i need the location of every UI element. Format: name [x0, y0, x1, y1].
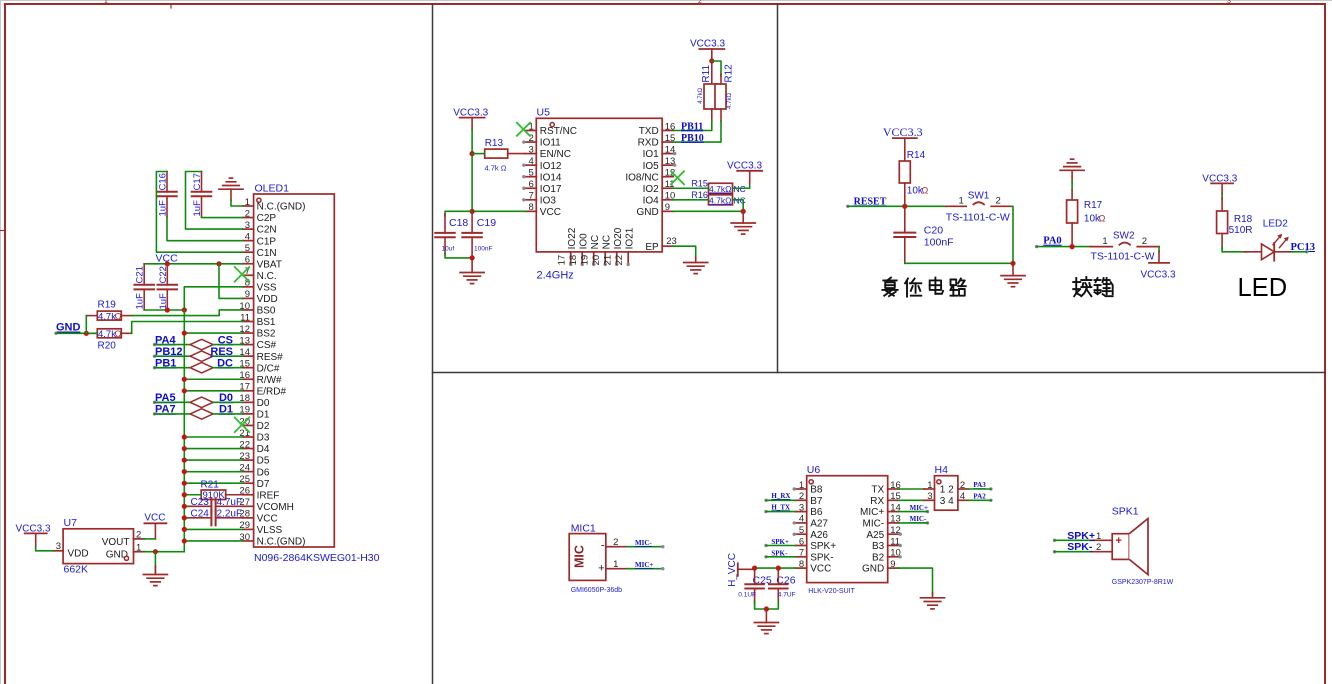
svg-text:GND: GND [56, 322, 81, 334]
OLED1 pin 20 D2 [239, 416, 269, 432]
U5 pin 17 IO22 [557, 227, 578, 266]
resistor R11 [698, 61, 718, 121]
net label PA7 [153, 404, 176, 416]
wire [202, 216, 243, 219]
U5 pin 12 IO8/NC [625, 168, 675, 184]
svg-text:2.4GHz: 2.4GHz [537, 270, 574, 282]
capacitor C21 [134, 264, 154, 310]
wire [673, 210, 743, 212]
net label GND [54, 322, 80, 335]
U6 pin 11 B3 [872, 536, 902, 552]
svg-text:TX: TX [871, 485, 884, 496]
wire [766, 545, 796, 547]
svg-text:4: 4 [245, 231, 250, 242]
wire [155, 344, 191, 346]
net label PA5 [153, 392, 176, 404]
U6 pin 9 GND [862, 559, 899, 575]
svg-text:B2: B2 [872, 552, 885, 563]
wire [899, 511, 928, 513]
junction [182, 330, 187, 335]
OLED1 pin 2 C2P [243, 208, 277, 224]
OLED1 pin 25 D7 [239, 474, 269, 490]
svg-text:R18: R18 [1234, 214, 1253, 225]
svg-text:R20: R20 [98, 341, 117, 352]
svg-text:0.1UF: 0.1UF [738, 591, 756, 598]
svg-text:4.7kΩ: 4.7kΩ [709, 184, 731, 194]
junction [165, 307, 170, 312]
svg-text:PA0: PA0 [1043, 236, 1061, 247]
svg-text:4: 4 [799, 514, 804, 525]
wire [184, 287, 242, 310]
U5 pin 4 IO12 [522, 156, 562, 172]
U6 pin 15 RX [870, 491, 900, 507]
ground at U5 pin 9 [731, 223, 755, 234]
title 复位电路 [882, 278, 965, 297]
svg-text:SPK1: SPK1 [1112, 506, 1139, 518]
svg-text:IO3: IO3 [540, 195, 557, 206]
svg-text:IO14: IO14 [540, 172, 562, 183]
svg-text:4.7k Ω: 4.7k Ω [485, 164, 507, 173]
svg-text:17: 17 [557, 255, 568, 266]
svg-text:10uf: 10uf [442, 246, 455, 253]
svg-text:VCC3.3: VCC3.3 [883, 125, 923, 139]
OLED1 pin 11 BS1 [240, 312, 276, 328]
svg-text:VCC3.3: VCC3.3 [690, 39, 725, 50]
capacitor C19 [462, 211, 496, 258]
resistor R12 [715, 64, 734, 121]
wire [899, 522, 928, 524]
svg-text:6: 6 [529, 179, 534, 190]
svg-text:3: 3 [927, 491, 932, 502]
svg-text:662K: 662K [64, 564, 89, 576]
svg-text:7: 7 [799, 548, 804, 559]
wire [1158, 247, 1160, 252]
svg-text:VCOMH: VCOMH [257, 502, 294, 513]
svg-text:PB10: PB10 [681, 133, 704, 144]
svg-text:U5: U5 [537, 107, 551, 119]
U6 pin 14 MIC+ [860, 502, 901, 518]
svg-text:3: 3 [245, 220, 250, 231]
wire [184, 390, 242, 392]
wire [673, 121, 721, 142]
ground bars [219, 178, 243, 189]
OLED1 pin 12 BS2 [239, 324, 276, 340]
svg-text:VLSS: VLSS [257, 525, 283, 536]
svg-text:3: 3 [56, 541, 61, 552]
speaker SPK1 [1090, 506, 1174, 587]
section divider vertical 2 [777, 4, 779, 373]
svg-text:9: 9 [665, 202, 670, 213]
OLED1 pin 24 D6 [239, 462, 269, 478]
svg-text:2: 2 [799, 491, 804, 502]
svg-text:R17: R17 [1084, 200, 1103, 211]
resistor R18 [1217, 198, 1253, 249]
U5 pin 3 EN/NC [525, 144, 571, 160]
svg-text:Ω: Ω [922, 186, 929, 196]
junction [216, 261, 221, 266]
wire MIC1 pin 1 [617, 567, 665, 570]
svg-text:H_RX: H_RX [771, 492, 790, 500]
U5 pin 11 IO2 [643, 179, 675, 195]
power VCC3.3 above R11 [690, 39, 725, 62]
ground stem below C25 C26 [765, 609, 767, 623]
wire [184, 494, 201, 496]
junction [752, 566, 757, 571]
svg-text:D/C#: D/C# [257, 363, 280, 374]
ground stem below C18 C19 [471, 258, 473, 273]
power VCC3.3 below SW2 [1141, 251, 1176, 281]
wire [968, 488, 991, 490]
svg-text:MIC+: MIC+ [860, 507, 884, 518]
wire [156, 172, 242, 253]
svg-text:VCC3.3: VCC3.3 [1141, 270, 1176, 281]
resistor R19 [86, 300, 131, 323]
ground at U7 [143, 575, 167, 586]
svg-text:IO11: IO11 [540, 138, 561, 149]
wire [755, 567, 796, 569]
ground at U6 pin 9 [921, 598, 945, 609]
capacitor C22 [158, 264, 178, 310]
net label SPK+ at U6 [764, 538, 789, 547]
svg-text:A26: A26 [810, 530, 828, 541]
U5 pin 10 IO4 [643, 191, 676, 207]
junction [165, 261, 170, 266]
svg-text:VOUT: VOUT [102, 537, 130, 548]
U6 pin 2 B7 [796, 491, 823, 507]
svg-text:1: 1 [104, 0, 108, 5]
resistor R21 [201, 480, 243, 502]
U5 pin 15 RXD [638, 133, 676, 149]
U6 pin 10 B2 [872, 548, 902, 564]
svg-text:VDD: VDD [257, 294, 278, 305]
svg-text:SPK+: SPK+ [810, 541, 836, 552]
wire [144, 538, 155, 540]
svg-text:R19: R19 [98, 300, 117, 311]
svg-text:8: 8 [529, 202, 534, 213]
svg-text:IO5: IO5 [643, 161, 660, 172]
OLED1 pin 29 VLSS [239, 520, 282, 536]
net label SPK+ at SPK1 [1053, 530, 1095, 542]
svg-text:E/RD#: E/RD# [257, 386, 287, 397]
svg-text:D5: D5 [257, 456, 270, 467]
OLED1 pin 7 N.C. [243, 266, 277, 282]
junction [776, 566, 781, 571]
OLED1 pin 27 VCOMH [239, 497, 293, 513]
wire [445, 253, 472, 258]
svg-text:4.7uF: 4.7uF [217, 497, 243, 508]
U5 pin 8 VCC [525, 202, 561, 218]
ground at U5 EP [684, 263, 708, 274]
ground stem [230, 189, 232, 200]
OLED1 pin 9 VDD [243, 289, 278, 305]
wire [712, 61, 721, 76]
net label H_TX [764, 503, 790, 513]
svg-text:3: 3 [1227, 0, 1231, 5]
wire [1222, 247, 1246, 252]
OLED1 pin 28 VCC [239, 509, 277, 525]
svg-text:D4: D4 [257, 444, 270, 455]
svg-text:PB11: PB11 [681, 121, 703, 132]
U6 pin 12 A25 [866, 525, 901, 541]
svg-text:R11: R11 [701, 65, 712, 83]
wire [673, 121, 712, 131]
svg-text:D2: D2 [257, 421, 270, 432]
svg-text:C22: C22 [158, 266, 169, 283]
wire [673, 187, 708, 189]
wire [183, 310, 185, 552]
svg-text:D1: D1 [257, 410, 270, 421]
no-connect X at pin 20 [235, 418, 250, 433]
svg-text:MIC-: MIC- [910, 515, 927, 523]
svg-text:D7: D7 [257, 479, 270, 490]
svg-text:SW1: SW1 [968, 190, 990, 201]
OLED1 pin 23 D5 [239, 451, 269, 467]
svg-text:4: 4 [960, 491, 965, 502]
svg-text:1uF: 1uF [192, 200, 203, 217]
connector OLED1 box [254, 194, 335, 547]
ground stem at U6 GND [932, 593, 934, 598]
svg-text:510R: 510R [1229, 225, 1253, 236]
no-connect X at pin 7 [235, 267, 250, 282]
LED LED2 [1244, 218, 1291, 260]
svg-text:RXD: RXD [638, 138, 659, 149]
net label PA4 [153, 334, 177, 346]
capacitor C23 [186, 497, 243, 514]
jumper diamond DC [190, 362, 213, 373]
svg-text:2: 2 [698, 0, 702, 5]
svg-text:H4: H4 [935, 464, 949, 476]
wire [899, 499, 924, 501]
svg-text:-: - [601, 540, 605, 552]
svg-text:LED2: LED2 [1263, 218, 1288, 229]
svg-text:GMI6050P-36db: GMI6050P-36db [571, 587, 622, 594]
svg-text:1uF: 1uF [158, 293, 169, 310]
OLED1 pin 13 CS# [239, 335, 276, 351]
wire [1012, 206, 1013, 263]
svg-text:+: + [1116, 535, 1122, 547]
no-connect X at U5 pin 1 [517, 123, 530, 136]
wire [155, 367, 191, 369]
svg-text:3: 3 [529, 144, 534, 155]
junction [182, 515, 187, 520]
svg-text:B3: B3 [872, 541, 885, 552]
svg-text:VCC: VCC [810, 564, 831, 575]
svg-text:C19: C19 [477, 217, 496, 229]
jumper diamond RES [190, 351, 213, 362]
svg-text:Ω: Ω [1099, 213, 1106, 223]
net label MIC- at U6 [910, 515, 930, 524]
resistor R13 [485, 138, 526, 173]
ground stem at U5 GND [742, 211, 744, 223]
svg-text:2: 2 [960, 480, 965, 491]
U5 pin 19 NC [580, 235, 601, 266]
wire [766, 556, 796, 558]
svg-text:CS#: CS# [257, 340, 277, 351]
OLED1 pin 17 E/RD# [239, 382, 286, 398]
svg-text:RES#: RES# [257, 352, 284, 363]
U5 pin 18 IO0 [568, 233, 589, 266]
OLED1 pin 14 RES# [239, 347, 283, 363]
switch SW2 [1091, 243, 1160, 247]
svg-text:Ω: Ω [115, 329, 122, 340]
capacitor C17 [192, 172, 212, 217]
svg-text:BS0: BS0 [257, 306, 276, 317]
svg-text:5: 5 [799, 525, 804, 536]
net label SPK- at U6 [764, 549, 788, 558]
svg-text:GND: GND [636, 207, 658, 218]
svg-text:4: 4 [529, 156, 534, 167]
wire [155, 355, 191, 357]
wire [184, 332, 242, 334]
svg-text:2: 2 [1096, 542, 1101, 553]
wire [132, 322, 243, 334]
U5 pin 23 EP [645, 236, 676, 253]
U6 pin 1 B8 [793, 480, 823, 496]
wire [848, 205, 946, 207]
U5 pin 5 IO14 [522, 168, 562, 184]
OLED1 pin 6 VBAT [243, 255, 282, 271]
wire [155, 413, 191, 415]
svg-text:MIC: MIC [573, 545, 587, 568]
svg-text:4.7k: 4.7k [98, 311, 116, 322]
svg-text:3 4: 3 4 [940, 496, 954, 507]
svg-text:VCC: VCC [257, 513, 278, 524]
net label PA3 [973, 481, 992, 490]
junction [182, 434, 187, 439]
svg-text:C21: C21 [135, 266, 146, 283]
svg-text:R21: R21 [201, 480, 220, 491]
wire [36, 547, 53, 551]
svg-text:MIC-: MIC- [635, 539, 652, 547]
junction [1010, 261, 1015, 266]
svg-text:C17: C17 [192, 173, 203, 190]
regulator U7 box [53, 517, 144, 576]
net label PB12 [153, 346, 183, 358]
junction [709, 58, 714, 63]
junction [182, 504, 187, 509]
U6 pin 13 MIC- [863, 514, 901, 530]
svg-text:IO8/NC: IO8/NC [625, 172, 658, 183]
svg-text:IO22: IO22 [567, 227, 578, 249]
ground bars inverted [1060, 159, 1084, 170]
title 按键 [1073, 277, 1112, 296]
junction [182, 527, 187, 532]
junction [153, 549, 158, 554]
wire [144, 551, 184, 553]
section divider vertical 1 [432, 4, 434, 684]
U6 pin1 origin circle [809, 480, 813, 484]
wire [766, 511, 796, 513]
net label PB1 [153, 358, 177, 370]
U6 pin 6 SPK+ [796, 536, 837, 552]
junction [182, 538, 187, 543]
svg-text:1: 1 [1096, 531, 1101, 542]
svg-text:B6: B6 [810, 507, 823, 518]
IC U6 box [807, 476, 888, 583]
capacitor C25 [738, 568, 772, 603]
U6 pin 5 A26 [793, 525, 829, 541]
wire [213, 355, 243, 357]
svg-text:3: 3 [799, 502, 804, 513]
svg-text:IO20: IO20 [613, 227, 624, 249]
wire [155, 401, 191, 403]
U5 pin 13 IO5 [643, 156, 677, 172]
wire [144, 263, 242, 265]
svg-text:IO2: IO2 [643, 184, 660, 195]
wire [445, 211, 472, 216]
svg-text:D3: D3 [257, 433, 270, 444]
power VCC3.3 above R18 [1202, 174, 1237, 195]
OLED1 pin 10 BS0 [239, 301, 276, 317]
net label PA2 [973, 493, 992, 502]
capacitor C16 [157, 172, 177, 217]
U6 pin 7 SPK- [796, 548, 834, 564]
svg-text:PA3: PA3 [973, 481, 986, 489]
svg-text:18: 18 [568, 255, 579, 266]
svg-text:C1N: C1N [257, 248, 277, 259]
svg-text:NC: NC [590, 235, 601, 249]
wire [1292, 251, 1307, 253]
svg-text:6: 6 [799, 536, 804, 547]
svg-text:2: 2 [245, 208, 250, 219]
resistor R20 [86, 329, 131, 352]
wire MIC1 pin 2 [617, 545, 665, 548]
svg-text:GSPK2307P-8R1W: GSPK2307P-8R1W [1112, 579, 1174, 586]
svg-text:5: 5 [529, 168, 534, 179]
svg-text:2: 2 [136, 530, 141, 541]
svg-text:1: 1 [245, 197, 250, 208]
resistor R14 [899, 150, 928, 206]
svg-text:4.7kΩ: 4.7kΩ [698, 87, 704, 103]
wire [132, 310, 243, 316]
svg-text:R12: R12 [723, 64, 734, 83]
ground stem at EP [695, 257, 697, 263]
svg-text:OLED1: OLED1 [255, 183, 290, 195]
power VCC3.3 above R14 [883, 125, 923, 161]
OLED1 pin 21 D3 [239, 428, 269, 444]
svg-text:2: 2 [1142, 236, 1147, 247]
svg-text:VBAT: VBAT [257, 259, 282, 270]
svg-text:TXD: TXD [639, 126, 659, 137]
wire [184, 448, 242, 450]
switch SW1 [946, 202, 1012, 206]
svg-text:C1P: C1P [257, 236, 277, 247]
svg-text:PA2: PA2 [973, 493, 986, 501]
U5 pin 22 IO21 [614, 227, 635, 266]
wire [1055, 551, 1090, 553]
svg-text:D0: D0 [257, 398, 270, 409]
wire [186, 172, 243, 230]
no-connect X at U5 pin 12 [671, 171, 684, 184]
net label MIC+ at U6 [910, 504, 930, 513]
wire [213, 344, 243, 346]
svg-text:C16: C16 [158, 173, 169, 190]
junction [84, 331, 89, 336]
svg-text:IO12: IO12 [540, 161, 562, 172]
ground stem at U7 [154, 552, 156, 575]
jumper diamond D0 [190, 397, 213, 408]
junction [470, 151, 475, 156]
svg-text:RST/NC: RST/NC [540, 126, 577, 137]
wire [184, 528, 242, 530]
svg-text:4.7k: 4.7k [98, 329, 116, 340]
svg-text:1: 1 [136, 542, 141, 553]
svg-text:9: 9 [245, 289, 250, 300]
svg-text:MIC+: MIC+ [910, 504, 928, 512]
svg-text:100nF: 100nF [474, 246, 492, 253]
OLED1 pin 19 D1 [239, 405, 269, 421]
wire [472, 130, 525, 212]
